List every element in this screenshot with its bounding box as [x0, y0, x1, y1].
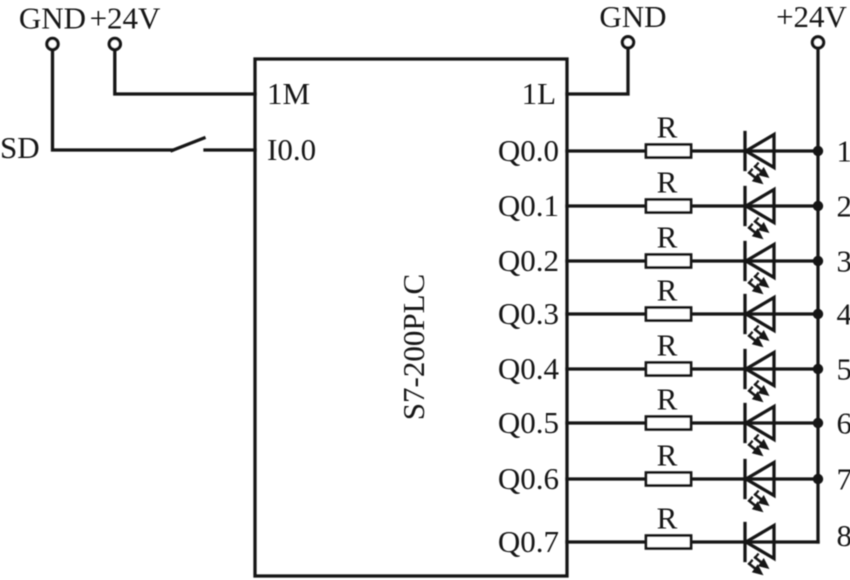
junction node row 4 on +24V rail — [813, 309, 823, 319]
resistor R (row 6) — [646, 417, 691, 430]
svg-text:Q0.2: Q0.2 — [498, 243, 559, 278]
resistor R (row 4) — [646, 308, 691, 321]
svg-text:R: R — [657, 438, 678, 473]
LED D7 — [745, 461, 774, 512]
wire Q0.0 output to rail — [567, 149, 646, 152]
switch SD (blade) — [172, 138, 204, 151]
wire switch to pin I0.0 — [205, 148, 255, 151]
svg-text:6: 6 — [837, 406, 850, 441]
wire Q0.5 output to rail — [567, 421, 646, 424]
svg-text:GND: GND — [19, 1, 86, 36]
svg-text:R: R — [657, 220, 678, 255]
wire +24V vertical rail — [816, 48, 819, 542]
wire Q0.7 output to rail — [567, 540, 646, 543]
junction node row 2 on +24V rail — [813, 201, 823, 211]
resistor R (row 7) — [646, 473, 691, 486]
terminal GND (right, open circle) — [622, 37, 633, 48]
svg-text:5: 5 — [837, 352, 850, 387]
wire Q0.6 output to rail — [567, 477, 646, 480]
LED D2 — [745, 188, 774, 239]
LED D6 — [745, 405, 774, 456]
resistor R (row 8) — [646, 536, 691, 549]
svg-text:7: 7 — [837, 462, 850, 497]
wire Q0.3 output to rail — [567, 312, 646, 315]
wire GND-left down to SD line — [53, 50, 173, 150]
svg-text:4: 4 — [837, 297, 850, 332]
wire Q0.4 output to rail — [567, 367, 646, 370]
svg-text:Q0.3: Q0.3 — [498, 296, 559, 331]
LED D1 — [745, 133, 774, 184]
terminal +24V (left, open circle) — [109, 38, 120, 49]
svg-text:Q0.4: Q0.4 — [498, 351, 560, 386]
svg-text:1: 1 — [837, 134, 850, 169]
resistor R (row 5) — [646, 363, 691, 376]
wire Q0.1 output to rail — [567, 204, 646, 207]
LED D5 — [745, 351, 774, 402]
junction node row 6 on +24V rail — [813, 418, 823, 428]
svg-text:R: R — [657, 110, 678, 145]
junction node row 3 on +24V rail — [813, 256, 823, 266]
svg-text:2: 2 — [837, 189, 850, 224]
svg-text:R: R — [657, 165, 678, 200]
svg-text:S7-200PLC: S7-200PLC — [396, 274, 431, 420]
svg-text:3: 3 — [837, 244, 850, 279]
wire Q0.2 output to rail — [567, 259, 646, 262]
wire GND-right to pin 1L — [567, 48, 628, 94]
svg-text:I0.0: I0.0 — [267, 132, 316, 167]
svg-text:Q0.7: Q0.7 — [498, 524, 559, 559]
svg-text:R: R — [657, 501, 678, 536]
LED D4 — [745, 296, 774, 347]
svg-text:Q0.0: Q0.0 — [498, 133, 559, 168]
LED D8 — [745, 524, 774, 575]
svg-text:R: R — [657, 382, 678, 417]
terminal +24V (right, open circle) — [812, 37, 823, 48]
wire +24V-left to pin 1M — [115, 50, 255, 94]
svg-text:R: R — [657, 328, 678, 363]
resistor R (row 2) — [646, 200, 691, 213]
resistor R (row 3) — [646, 255, 691, 268]
junction node row 7 on +24V rail — [813, 474, 823, 484]
svg-text:GND: GND — [599, 0, 666, 34]
svg-text:1L: 1L — [522, 76, 556, 111]
svg-text:Q0.1: Q0.1 — [498, 188, 559, 223]
svg-text:+24V: +24V — [776, 0, 847, 34]
svg-text:1M: 1M — [267, 76, 310, 111]
svg-text:+24V: +24V — [90, 1, 161, 36]
resistor R (row 1) — [646, 145, 691, 158]
svg-text:SD: SD — [0, 130, 40, 165]
LED D3 — [745, 243, 774, 294]
junction node row 5 on +24V rail — [813, 364, 823, 374]
svg-text:Q0.5: Q0.5 — [498, 405, 559, 440]
junction node row 1 on +24V rail — [813, 146, 823, 156]
svg-text:Q0.6: Q0.6 — [498, 461, 559, 496]
terminal GND (left, open circle) — [47, 38, 58, 49]
svg-text:8: 8 — [837, 518, 850, 553]
PLC U1 S7-200 box — [255, 59, 567, 576]
svg-text:R: R — [657, 273, 678, 308]
